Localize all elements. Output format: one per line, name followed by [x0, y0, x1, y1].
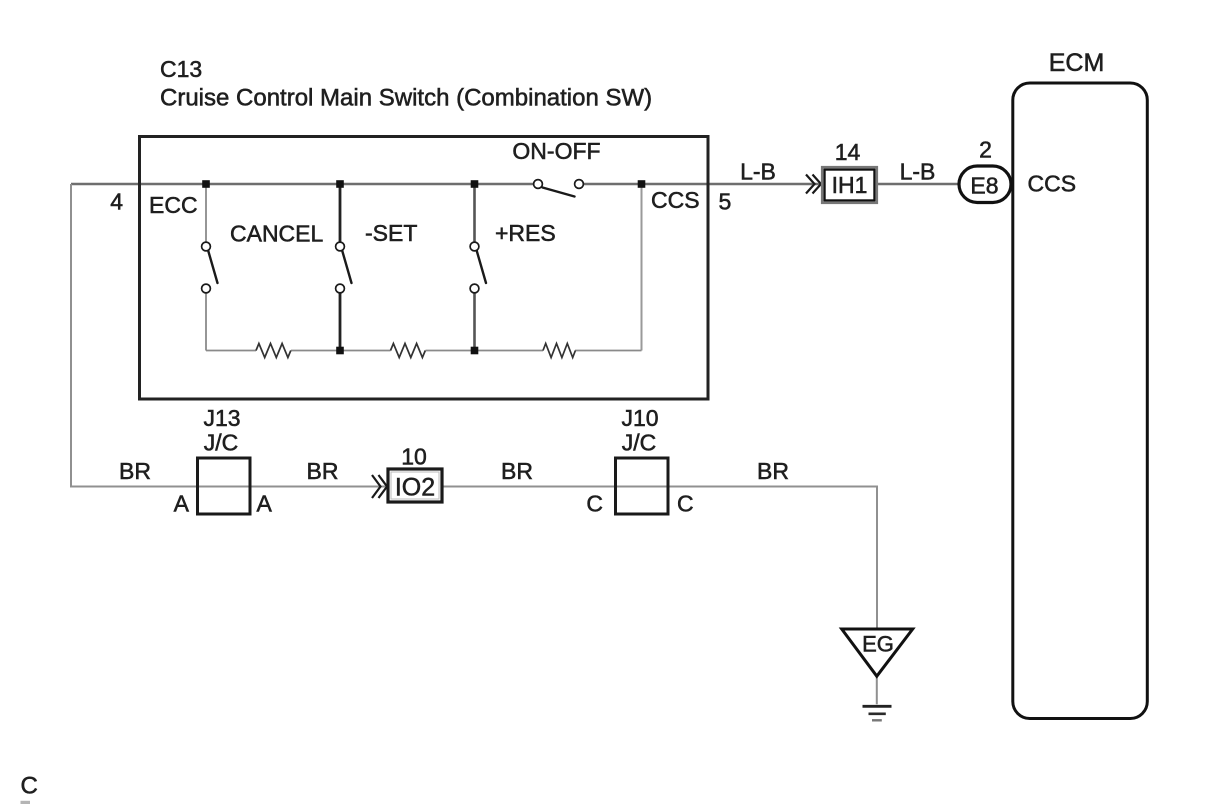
svg-text:E8: E8 — [970, 173, 998, 199]
svg-text:EG: EG — [862, 632, 894, 657]
svg-text:J10: J10 — [621, 405, 658, 431]
svg-text:C: C — [586, 491, 603, 517]
svg-text:CCS: CCS — [651, 187, 700, 213]
svg-text:C: C — [21, 773, 38, 800]
svg-text:IH1: IH1 — [832, 172, 868, 198]
svg-text:-SET: -SET — [365, 220, 417, 246]
svg-text:BR: BR — [119, 458, 151, 484]
svg-text:ECC: ECC — [149, 192, 198, 218]
svg-text:BR: BR — [501, 458, 533, 484]
svg-text:14: 14 — [835, 139, 861, 165]
svg-text:L-B: L-B — [900, 159, 936, 185]
svg-text:L-B: L-B — [740, 159, 776, 185]
svg-text:BR: BR — [757, 458, 789, 484]
svg-text:J/C: J/C — [204, 430, 239, 456]
svg-text:C: C — [677, 491, 694, 517]
svg-text:Cruise Control Main Switch (Co: Cruise Control Main Switch (Combination … — [160, 85, 652, 112]
svg-text:BR: BR — [307, 458, 339, 484]
svg-text:A: A — [257, 491, 273, 517]
svg-text:C13: C13 — [160, 56, 202, 82]
svg-text:A: A — [174, 491, 190, 517]
svg-text:5: 5 — [719, 189, 732, 215]
svg-text:10: 10 — [401, 444, 427, 470]
svg-text:CCS: CCS — [1028, 171, 1077, 197]
svg-text:2: 2 — [979, 137, 992, 163]
svg-text:+RES: +RES — [495, 220, 556, 246]
svg-text:ECM: ECM — [1049, 49, 1105, 77]
svg-text:ON-OFF: ON-OFF — [512, 138, 600, 164]
svg-text:CANCEL: CANCEL — [230, 221, 324, 247]
svg-text:4: 4 — [110, 189, 123, 215]
svg-text:IO2: IO2 — [395, 474, 435, 502]
svg-text:J/C: J/C — [622, 430, 657, 456]
svg-text:J13: J13 — [203, 405, 240, 431]
